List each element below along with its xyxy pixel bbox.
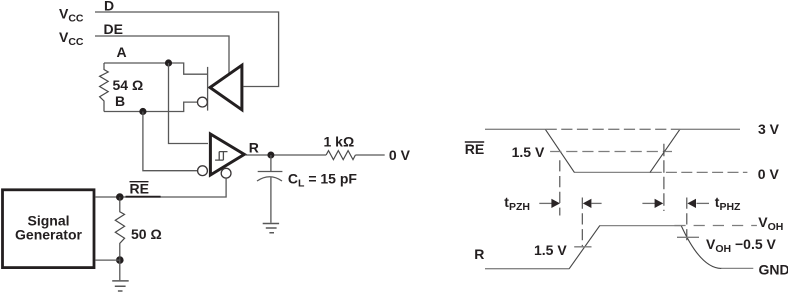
RE waveform rising edge: [650, 129, 680, 172]
wire DE: from VCC right, down to driver enable: [95, 36, 229, 75]
driver U1 triangle (points left): [210, 65, 242, 110]
capacitor CL: [270, 155, 272, 172]
receiver hysteresis symbol: [215, 152, 227, 161]
wire after 1k resistor to 0V: [355, 154, 384, 156]
arrow tPZH left (points right): [539, 202, 552, 204]
vertical dashed line at RE rise crossing: [663, 144, 665, 211]
svg-text:CL = 15 pF: CL = 15 pF: [288, 171, 358, 190]
wire A to receiver noninverting input: [169, 63, 209, 144]
driver inverting bubble: [198, 97, 208, 107]
tick at R rise 1.5V: [574, 246, 591, 248]
junction dot RE node: [116, 193, 124, 201]
svg-text:0 V: 0 V: [389, 147, 411, 163]
ground below generator: [112, 281, 129, 291]
ground below CL: [263, 224, 279, 233]
svg-text:1.5 V: 1.5 V: [512, 144, 545, 160]
R waveform rising edge: [569, 226, 600, 269]
svg-text:A: A: [117, 44, 127, 60]
wire A stub: A wire to driver bar: [104, 63, 208, 74]
R waveform GND flat right: [721, 267, 753, 269]
wire B stub: B wire to driver bubble: [104, 102, 197, 111]
RE waveform high flat segments: [485, 128, 546, 130]
arrow tPHZ left (points right): [642, 202, 655, 204]
wire RE from generator to receiver enable: [95, 179, 226, 197]
wire B to receiver inverting bubble: [143, 112, 197, 171]
RE waveform low flat segment (with tick past rise corner): [574, 171, 662, 173]
junction dot R node: [267, 152, 274, 159]
vertical dashed line at R rise crossing: [581, 198, 583, 247]
svg-text:VCC: VCC: [59, 29, 84, 48]
resistor 54ohm (vertical zigzag): [100, 63, 109, 112]
svg-text:DE: DE: [104, 21, 123, 37]
svg-text:tPHZ: tPHZ: [715, 194, 741, 213]
RE 1.5V mid dashed line: [550, 151, 672, 153]
RE waveform falling edge: [545, 129, 574, 172]
signal generator box: [3, 190, 95, 268]
R waveform GND flat left: [485, 268, 569, 270]
resistor 50 ohm vertical: [115, 197, 124, 260]
junction dot node B: [139, 108, 146, 115]
dark wire segment under RE label: [126, 196, 161, 198]
svg-text:VCC: VCC: [59, 6, 84, 25]
receiver enable bubble (RE): [221, 168, 231, 178]
svg-text:VOH −0.5 V: VOH −0.5 V: [706, 236, 777, 255]
wire generator bottom to ground: [95, 260, 120, 280]
svg-text:Generator: Generator: [15, 227, 82, 243]
wire D: from VCC right, down to driver input: [95, 12, 279, 87]
svg-text:3 V: 3 V: [758, 121, 780, 137]
tick at R fall VOH-0.5: [677, 236, 699, 238]
svg-text:RE: RE: [130, 181, 149, 197]
vertical dashed line at RE fall crossing: [559, 160, 561, 215]
svg-text:54 Ω: 54 Ω: [113, 77, 144, 93]
svg-text:tPZH: tPZH: [504, 194, 530, 213]
receiver inverting input bubble: [198, 166, 208, 176]
RE low dashed line to 0V (ends with dot): [666, 171, 748, 173]
driver output bar: [207, 67, 209, 111]
arrow tPHZ right (points left): [697, 202, 710, 204]
svg-text:1 kΩ: 1 kΩ: [324, 134, 355, 150]
arrow tPZH right (points left): [592, 202, 602, 204]
junction dot generator low node: [116, 256, 124, 264]
resistor R2 1 kohm (horizontal zigzag): [326, 151, 355, 160]
svg-text:GND: GND: [759, 261, 788, 277]
svg-text:B: B: [115, 93, 125, 109]
svg-text:R: R: [474, 246, 484, 262]
svg-text:50 Ω: 50 Ω: [131, 226, 162, 242]
vertical dashed line at R fall crossing: [686, 198, 688, 242]
junction dot node A: [165, 59, 172, 66]
wire R output: [246, 154, 327, 156]
svg-text:RE: RE: [465, 141, 484, 157]
R waveform falling curve to GND: [681, 226, 721, 269]
RE high dashed line: [546, 128, 680, 130]
R VOH dashed line: [674, 225, 757, 227]
receiver U2 triangle (points right): [210, 134, 244, 175]
svg-text:VOH: VOH: [758, 214, 783, 233]
R waveform VOH flat: [600, 225, 682, 227]
svg-text:0 V: 0 V: [758, 166, 780, 182]
svg-text:1.5 V: 1.5 V: [534, 242, 567, 258]
svg-text:R: R: [249, 140, 259, 156]
